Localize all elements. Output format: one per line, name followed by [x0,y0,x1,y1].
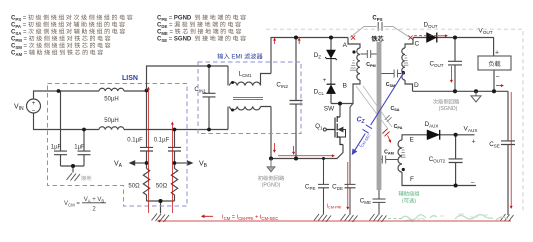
svg-text:CDE: CDE [332,184,343,191]
svg-text:DCL: DCL [314,89,325,96]
svg-text:1µF: 1µF [51,145,62,151]
diode D_AUX [427,130,439,140]
red arrow right SGND end [496,85,503,87]
wire V_IN bottom rail [34,113,229,130]
junction dots converter [329,35,342,105]
svg-text:Q1: Q1 [315,123,323,130]
LISN dashed box [48,84,188,207]
red arrow up riser x271 [274,39,276,45]
red CM path LISN column B [171,123,173,214]
red arrow down C_PA [388,136,391,143]
svg-text:VCM =: VCM = [64,201,80,207]
inductor 50uH bottom [99,127,124,130]
red arrow up at C_IN2 node [298,39,300,45]
svg-text:CIN2: CIN2 [276,82,288,89]
secondary winding C-D [402,48,405,80]
svg-text:LISN: LISN [122,75,138,82]
inductor 50uH top [99,88,124,91]
red CM path LISN column A [147,88,149,214]
choke polarity dots [231,81,234,84]
svg-text:VA + VB: VA + VB [84,197,105,203]
blue leader C_Z / I_CM-SEC [353,72,404,154]
svg-text:ICM-PRI: ICM-PRI [327,204,342,210]
formula V_CM [64,197,104,213]
svg-text:DAUX: DAUX [425,121,439,128]
svg-text:50Ω: 50Ω [128,184,140,190]
gray leader lines to parasitic caps [356,86,392,129]
primary winding A-B [357,48,360,80]
svg-text:CSM = 次级侧绕组对铁芯的电容: CSM = 次级侧绕组对铁芯的电容 [11,42,112,50]
wire load bottom [493,70,495,91]
EMI filter dashed box [198,62,301,134]
capacitor C_SA (tiny) [385,115,392,122]
wire output rail C to V_OUT [413,38,494,57]
svg-text:CAM = 辅助绕组到铁芯的电容: CAM = 辅助绕组到铁芯的电容 [11,49,105,57]
converter boundary dashed [266,29,523,212]
junction dots LISN [57,89,177,203]
capacitor C_OUT [448,38,462,92]
capacitor C_IN2 [290,38,303,159]
svg-text:A: A [343,42,348,49]
svg-text:接地: 接地 [81,175,92,182]
watermark gray bits [440,214,488,217]
red arrow down riser to PGND [273,143,275,152]
junction dots EMI [207,35,298,160]
wire resistor join [147,201,175,214]
capacitor C_ME column [373,190,386,215]
capacitor 0.1uF #1 [140,91,153,169]
svg-text:+: + [323,77,327,84]
svg-text:CSA = 次级侧绕组对辅助绕组的电容: CSA = 次级侧绕组对辅助绕组的电容 [11,28,127,36]
choke core lines [233,97,263,99]
capacitor C_IN1 [203,66,216,130]
capacitor C_Z (blue, on leader) [363,125,373,133]
svg-text:CME: CME [360,198,371,205]
svg-text:VOUT: VOUT [478,28,492,35]
svg-text:输入 EMI 滤波器: 输入 EMI 滤波器 [217,53,263,61]
svg-text:辅助绕组: 辅助绕组 [398,191,420,198]
svg-text:2: 2 [92,207,96,213]
watermark squiggle green [401,215,508,220]
aux turns mark [401,148,406,158]
capacitor C_OUT2 [449,135,463,186]
earth hatch under C_DE [341,214,358,222]
capacitor 1uF #2 [78,130,91,167]
resistor 50ohm #2 [171,169,177,202]
svg-text:DOUT: DOUT [423,22,437,29]
svg-text:CPA: CPA [394,124,403,130]
capacitor 1uF #1 [54,91,67,166]
svg-text:1µF: 1µF [74,145,85,151]
chassis ground 1uF [67,173,81,181]
svg-text:CZ: CZ [356,117,365,126]
wire riser LISN to EMI top rail [147,66,229,91]
svg-text:C: C [415,41,420,48]
svg-text:D: D [414,82,419,89]
wire SW node [331,80,360,104]
svg-text:50Ω: 50Ω [156,184,168,190]
svg-text:CPM: CPM [366,62,375,68]
svg-text:ICM = ICM-PRI + ICM-SEC: ICM = ICM-PRI + ICM-SEC [222,215,278,221]
svg-text:(PGND): (PGND) [262,183,281,189]
svg-text:CSE: CSE [489,141,500,148]
source V_IN [27,99,41,113]
ground PGND triangle [267,159,275,172]
choke L_CM1 top winding [228,66,271,86]
capacitor C_PS bridge [350,27,410,38]
wire PGND rail [271,145,343,159]
svg-text:−: − [496,74,500,81]
red dashes on V_OUT rail [414,35,438,37]
secondary polarity dot [402,71,405,74]
capacitor C_DE column [345,104,356,215]
svg-text:+: + [472,139,476,146]
svg-text:(SGND): (SGND) [439,106,458,112]
wire SGND to C_SE column [501,91,515,215]
wire 1uF ground join [61,166,85,173]
svg-text:CDE = 漏极到接地端的电容: CDE = 漏极到接地端的电容 [157,21,243,29]
wire V_IN top to rail [34,91,147,99]
capacitor C_PE column [318,159,329,215]
svg-text:−: − [471,180,475,187]
svg-text:CPE: CPE [305,184,316,191]
capacitor C_PM [361,50,377,58]
svg-text:CPS = 初级侧绕组对次级侧绕组的电容: CPS = 初级侧绕组对次级侧绕组的电容 [11,14,134,22]
svg-text:SW: SW [324,106,334,113]
red line down right edge to earth [510,92,512,208]
svg-text:铁芯: 铁芯 [371,35,384,43]
choke L_CM1 bottom winding [228,107,271,130]
svg-text:次级侧回路: 次级侧回路 [433,99,460,106]
capacitor C_SM [381,70,401,78]
svg-text:+: + [32,100,36,107]
secondary turns mark [404,56,409,66]
svg-text:VAUX: VAUX [464,126,479,133]
svg-text:CPM = 初级侧绕组对铁芯的电容: CPM = 初级侧绕组对铁芯的电容 [11,35,112,43]
diode D_OUT [427,33,437,43]
svg-text:初级侧回路: 初级侧回路 [258,175,285,182]
svg-text:50µH: 50µH [104,97,118,103]
svg-text:CPA = 初级侧绕组对辅助绕组的电容: CPA = 初级侧绕组对辅助绕组的电容 [11,21,127,29]
transistor Q1 [327,116,344,145]
red line along PGND rail [278,155,334,157]
wire secondary to node C [405,38,413,49]
svg-text:+: + [495,50,499,57]
svg-text:VB: VB [199,161,208,170]
earth hatch under C_ME [370,214,387,222]
svg-text:CIN1: CIN1 [194,86,206,93]
svg-text:−: − [32,107,36,114]
wire aux rail E [402,135,475,140]
wire SGND rail [413,90,509,92]
earth hatch under C_SE [501,214,514,222]
ground SGND triangle [471,91,481,102]
svg-text:50µH: 50µH [104,118,118,124]
svg-text:B: B [343,83,347,90]
resistor 50ohm #1 [143,169,149,202]
diode D_CL [327,83,336,85]
svg-text:VA: VA [114,161,123,170]
svg-text:E: E [410,137,415,144]
watermark green dashes [388,218,402,220]
capacitor C_AM [381,156,398,164]
wire node A to primary [348,38,360,49]
svg-text:VIN: VIN [14,104,24,113]
wire clamp branch [330,38,332,104]
wire aux bottom rail F [402,172,476,186]
svg-text:CME = 铁芯到接地端的电容: CME = 铁芯到接地端的电容 [157,28,243,36]
svg-text:COUT: COUT [429,61,443,68]
primary polarity dot [352,50,355,53]
arrow V_A tap [130,162,145,164]
svg-text:0.1µF: 0.1µF [127,138,143,144]
chassis ground LISN resistors [152,214,170,223]
load box [478,56,511,70]
capacitor C_PA (tiny red) [382,129,389,137]
svg-text:0.1µF: 0.1µF [154,138,170,144]
svg-text:COUT2: COUT2 [429,156,446,163]
svg-text:(可选): (可选) [402,198,416,205]
junction dots aux [454,133,458,188]
svg-text:DZ: DZ [314,52,322,59]
wire top rail to node A [331,37,348,39]
wire drain Q1 [339,104,341,118]
svg-text:CSA: CSA [390,106,399,112]
V_IN polarity marks [32,100,36,115]
wire node D riser [405,80,413,91]
svg-text:CPE = PGND 到接地端的电容: CPE = PGND 到接地端的电容 [157,14,248,22]
red X at node A [351,36,355,40]
svg-text:CSE = SGND 到接地端的电容: CSE = SGND 到接地端的电容 [157,35,248,43]
aux polarity dot [402,168,405,171]
svg-text:LCM1: LCM1 [238,71,252,78]
earth hatch under C_PE [314,214,331,222]
wire riser EMI to converter top rail [271,38,331,74]
red X at node C [409,36,413,40]
svg-text:CPS: CPS [372,16,382,22]
capacitor 0.1uF #2 [168,130,181,169]
transformer core bar [377,42,382,190]
red line along C_DE column [347,162,349,209]
svg-text:负载: 负载 [488,60,500,68]
junction dots output [453,35,496,93]
diode D_Z zener [327,50,336,58]
arrow V_B tap [177,162,193,164]
primary turns mark [350,61,356,71]
red inline arrow I_CM [202,215,213,217]
svg-text:CAM: CAM [384,150,394,156]
aux winding E-F [398,140,402,172]
red arrow down C_IN2 bottom [293,146,295,154]
wire riser EMI bottom to PGND [270,107,272,159]
svg-text:F: F [410,176,414,183]
dot C_PE tap [322,157,325,160]
red CM earth return line [158,220,511,222]
red arrow down C_OUT column [450,66,452,82]
